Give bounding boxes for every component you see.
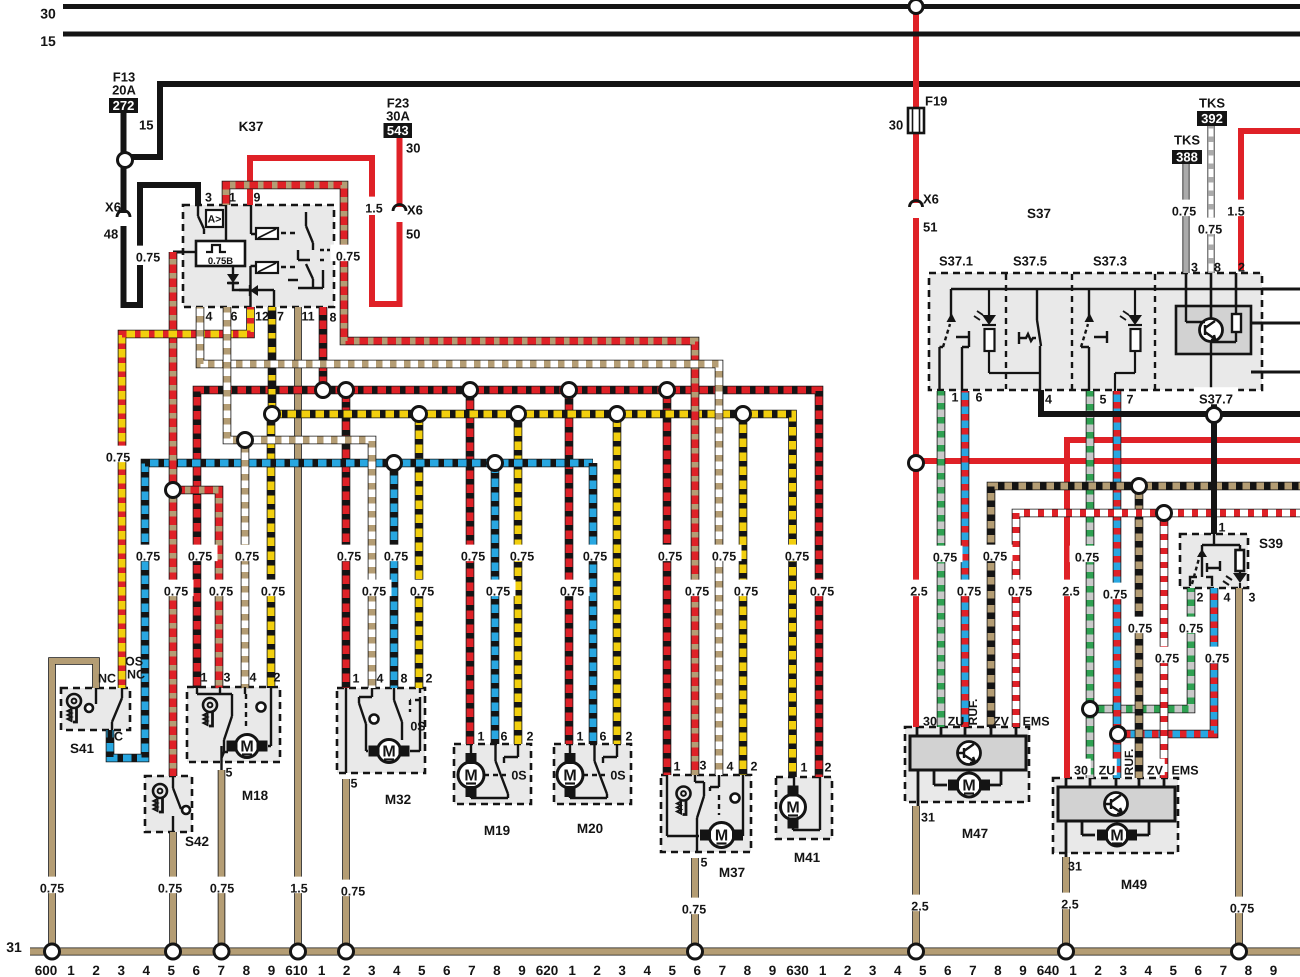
junction white/tan M18 pin4: [238, 433, 253, 448]
svg-text:50: 50: [406, 227, 420, 242]
wire white/tan branch to M18 pin4: [241, 440, 250, 688]
svg-text:0.75: 0.75: [712, 550, 736, 564]
svg-text:0.75: 0.75: [158, 882, 182, 896]
svg-text:4: 4: [377, 672, 384, 686]
svg-text:1: 1: [318, 963, 326, 977]
relay K37 diode 2: [239, 285, 262, 296]
label 1.5 s37pin2: [1222, 200, 1249, 217]
label 0.75 K37pin2feed: [331, 245, 366, 262]
svg-text:8: 8: [1245, 963, 1253, 977]
motor M32 switch lines: [346, 688, 420, 773]
stub S37 right 3: [1251, 371, 1300, 374]
switch S41 box: [61, 688, 130, 730]
connector X6 48: [117, 211, 130, 217]
S37 divider 3: [1154, 274, 1156, 389]
svg-text:9: 9: [769, 963, 777, 977]
motor M18 contact: [257, 703, 266, 712]
svg-text:ZV: ZV: [993, 715, 1010, 729]
svg-text:30: 30: [40, 6, 56, 22]
motor M47 31 lead: [917, 770, 920, 806]
switch S41 blades: [96, 688, 122, 730]
svg-text:RUF.: RUF.: [1122, 749, 1136, 776]
label 0.75 row2 x173: [159, 580, 194, 597]
motor M49 box: [1053, 778, 1178, 853]
label 1.5 k37g: [285, 877, 312, 894]
connector X6 51: [910, 201, 923, 207]
label 0.75 row1 x197: [183, 545, 218, 562]
svg-text:30: 30: [1074, 764, 1088, 778]
svg-text:S37.7: S37.7: [1199, 392, 1233, 407]
svg-text:31: 31: [1068, 860, 1082, 874]
stub S37 right 2: [1251, 322, 1300, 325]
svg-text:0.75: 0.75: [136, 550, 160, 564]
svg-text:15: 15: [139, 118, 153, 133]
junction S37.7 to S39: [1207, 408, 1222, 423]
S37.5 switch: [1019, 289, 1041, 391]
svg-text:0.75: 0.75: [1172, 205, 1196, 219]
fuse F13 track ref 272: [109, 98, 138, 113]
motor M32 motor symbol: [369, 740, 410, 763]
svg-text:1: 1: [819, 963, 827, 977]
wire M37 pin5 to rail 31: [691, 858, 699, 948]
svg-text:7: 7: [468, 963, 476, 977]
svg-text:6: 6: [600, 730, 607, 744]
wire red/tan branch to M18 pin3: [173, 490, 219, 688]
svg-text:0.75: 0.75: [164, 585, 188, 599]
wire white/red EMS net: [1016, 513, 1300, 727]
power rail 30: [63, 4, 1300, 9]
svg-text:3: 3: [1119, 963, 1127, 977]
switch S42 box: [145, 776, 192, 832]
svg-text:2.5: 2.5: [1062, 585, 1079, 599]
svg-text:0.75: 0.75: [209, 585, 233, 599]
junction rail31 K37 pin11: [291, 944, 306, 959]
junction blue/black M19 pin6: [488, 456, 503, 471]
svg-text:630: 630: [786, 963, 809, 977]
svg-text:8: 8: [401, 672, 408, 686]
wire white/tan K37 pin6 to M32 pin4: [227, 307, 372, 688]
junction rail31 M32: [339, 944, 354, 959]
wire red/black to M19 pin1: [466, 390, 475, 744]
label 0.75 row2 x270: [256, 580, 291, 597]
svg-text:2: 2: [343, 963, 351, 977]
wire black/yellow K37 pin7: [268, 307, 277, 414]
svg-text:7: 7: [1220, 963, 1228, 977]
label 0.75 zu49: [1070, 546, 1105, 563]
svg-text:5: 5: [167, 963, 175, 977]
svg-text:12: 12: [255, 310, 269, 324]
wire gray/green branch to S39 pin2: [1090, 588, 1191, 709]
junction red/tan K37 pin2 branch: [166, 483, 181, 498]
svg-text:0.75: 0.75: [336, 250, 360, 264]
svg-text:3: 3: [1191, 261, 1198, 275]
label M49 ZU: [1097, 759, 1117, 776]
svg-text:ZU: ZU: [948, 715, 965, 729]
wire red F19 to X6-51: [913, 133, 919, 203]
svg-text:EMS: EMS: [1022, 715, 1049, 729]
junction rail31 M18: [214, 944, 229, 959]
label 2.5 m49: [1057, 580, 1084, 597]
junction rail31 M37: [688, 944, 703, 959]
switch S42 contact: [182, 806, 190, 814]
wire 15 feed from F13 to terminal 15 rail: [121, 113, 127, 153]
relay K37 interior: [183, 205, 330, 307]
wire tan/black to M49 ZV: [1135, 486, 1144, 778]
svg-text:2: 2: [274, 671, 281, 685]
svg-text:0.75: 0.75: [40, 882, 64, 896]
svg-text:M20: M20: [577, 821, 603, 836]
relay K37 box: [183, 205, 334, 307]
wire black to K37 pin3: [140, 185, 198, 249]
svg-text:1: 1: [1219, 521, 1226, 535]
junction red/black M32 pin1: [339, 383, 354, 398]
svg-text:M32: M32: [385, 792, 411, 807]
label 0.75 m18g: [205, 877, 240, 894]
svg-text:610: 610: [285, 963, 308, 977]
label 0.75 row1 x519: [505, 545, 540, 562]
motor M37 contact: [731, 794, 740, 803]
motor M19 motor symbol: [458, 753, 484, 797]
svg-text:RUF.: RUF.: [966, 699, 980, 726]
label 0.75 zv47: [978, 545, 1013, 562]
wire F13 down to X6: [121, 167, 127, 213]
wire yellow/black to M18 pin2: [267, 414, 276, 688]
svg-text:5: 5: [418, 963, 426, 977]
svg-text:EMS: EMS: [1171, 764, 1198, 778]
label 0.75 row1 x667: [653, 545, 688, 562]
svg-text:7: 7: [277, 310, 284, 324]
svg-text:0.75: 0.75: [136, 251, 160, 265]
svg-text:0S: 0S: [511, 769, 526, 783]
wire yellow/red K37 pin12 to S41: [122, 307, 251, 688]
svg-text:1.5: 1.5: [290, 882, 307, 896]
svg-text:2.5: 2.5: [910, 585, 927, 599]
svg-text:6: 6: [694, 963, 702, 977]
svg-text:4: 4: [643, 963, 651, 977]
svg-text:A>: A>: [208, 213, 222, 225]
svg-text:4: 4: [894, 963, 902, 977]
wire gray/green S37 pin1 to M47 ZU: [937, 391, 946, 727]
svg-text:8: 8: [994, 963, 1002, 977]
switch unit S37 box: [929, 273, 1262, 390]
svg-text:F19: F19: [925, 94, 947, 109]
svg-text:1: 1: [353, 672, 360, 686]
svg-text:0.75: 0.75: [685, 585, 709, 599]
svg-text:600: 600: [35, 963, 58, 977]
svg-text:6: 6: [231, 310, 238, 324]
svg-text:6: 6: [193, 963, 201, 977]
wire red branch right: [916, 458, 1300, 464]
wire yellow/black distribution: [272, 414, 793, 777]
svg-text:M47: M47: [962, 826, 988, 841]
svg-text:OS: OS: [125, 655, 143, 669]
svg-text:4: 4: [1144, 963, 1152, 977]
wire red/black distribution: [197, 390, 819, 777]
wire red/blue S37 pin7 to M49 RUF: [1113, 391, 1122, 778]
S37 internal bus: [951, 288, 1262, 290]
wire ground S41 to rail 31: [52, 661, 96, 948]
S37.1 switch: [940, 289, 970, 391]
wire red X6-51 down to M47 pin30: [913, 218, 919, 727]
label 0.75 row1 x393: [379, 545, 414, 562]
svg-text:2.5: 2.5: [1061, 898, 1078, 912]
wire M49 pin31 to rail 31 (2.5): [1062, 857, 1070, 948]
wire X6/48 down: [124, 226, 141, 305]
svg-text:30: 30: [889, 118, 903, 133]
svg-text:X6: X6: [105, 200, 121, 215]
svg-text:2: 2: [527, 730, 534, 744]
svg-text:8: 8: [243, 963, 251, 977]
label 0.75 row2 x218: [204, 580, 239, 597]
svg-text:X6: X6: [407, 203, 423, 218]
label 2.5 m49g: [1056, 893, 1083, 910]
svg-text:4: 4: [250, 671, 257, 685]
svg-text:M: M: [786, 800, 799, 817]
label 0.75 ems47: [1003, 580, 1038, 597]
svg-text:48: 48: [104, 227, 118, 242]
label 0.75 m37g: [677, 898, 712, 915]
wire black S37.7 to S39 pin1: [1211, 415, 1217, 534]
label 0.75 s41g: [35, 877, 70, 894]
stub S37 right 1: [1262, 288, 1300, 291]
svg-text:M: M: [715, 828, 728, 845]
relay K37 diode 1: [227, 274, 239, 283]
motor M49 motor loop: [1082, 821, 1149, 835]
svg-text:6: 6: [501, 730, 508, 744]
junction F13: [118, 153, 133, 168]
svg-text:30: 30: [923, 715, 937, 729]
label 0.75 zvM49: [1123, 617, 1158, 634]
svg-text:0.75: 0.75: [734, 585, 758, 599]
svg-text:8: 8: [493, 963, 501, 977]
junction red/blue S39 pin4: [1111, 727, 1126, 742]
S37.7 resistor: [1211, 306, 1241, 342]
svg-text:1: 1: [801, 761, 808, 775]
wire K37 pin11 to rail 31 (1.5): [294, 307, 302, 948]
motor M47 motor symbol: [948, 773, 990, 797]
label 0.75 row2 x371: [357, 580, 392, 597]
svg-text:1: 1: [67, 963, 75, 977]
wire red/black to M37 pin1: [663, 390, 672, 775]
svg-text:0.75: 0.75: [461, 550, 485, 564]
label 0.75 s42g: [153, 877, 188, 894]
motor M20 switch lines: [570, 744, 617, 798]
svg-text:30: 30: [406, 141, 420, 156]
junction gray/green S39 pin2: [1083, 702, 1098, 717]
label 0.75 X6-48: [131, 246, 166, 263]
power rail 15: [63, 32, 1300, 37]
label 0.75 tks388: [1167, 200, 1202, 217]
svg-text:1: 1: [229, 191, 236, 205]
fuse F23 track ref 543: [384, 123, 413, 138]
svg-text:0.75: 0.75: [583, 550, 607, 564]
svg-text:S37.1: S37.1: [939, 254, 973, 269]
S37 pin3 lead: [1185, 273, 1188, 306]
svg-text:0S: 0S: [410, 720, 425, 734]
motor M49 pin leads: [1066, 778, 1164, 787]
junction yellow/black M19 pin2: [511, 407, 526, 422]
svg-text:M: M: [962, 778, 975, 795]
svg-text:272: 272: [113, 98, 135, 113]
svg-text:30A: 30A: [386, 109, 410, 124]
wire red cont: [250, 158, 372, 205]
svg-text:3: 3: [205, 191, 212, 205]
svg-text:3: 3: [1249, 591, 1256, 605]
svg-text:6: 6: [443, 963, 451, 977]
svg-text:2: 2: [426, 672, 433, 686]
svg-text:5: 5: [226, 766, 233, 780]
motor M47 inner unit: [910, 736, 1026, 770]
junction red/black M20 pin1: [562, 383, 577, 398]
wire white/red to M49 EMS: [1160, 513, 1169, 778]
svg-text:7: 7: [969, 963, 977, 977]
svg-text:543: 543: [387, 123, 409, 138]
svg-text:ZV: ZV: [1147, 764, 1164, 778]
wire blue/black to M20 pin6: [589, 463, 598, 744]
label 0.75 s39g: [1225, 897, 1260, 914]
motor M20 box: [554, 744, 631, 804]
svg-text:C: C: [114, 730, 123, 744]
svg-text:3: 3: [368, 963, 376, 977]
svg-text:388: 388: [1176, 150, 1198, 165]
svg-text:0.75: 0.75: [1008, 585, 1032, 599]
S37 divider 2: [1071, 274, 1073, 389]
motor M19 box: [454, 744, 531, 804]
motor M18 key symbol: [203, 698, 217, 726]
junction red/black M19 pin1: [463, 383, 478, 398]
track ref TKS 388: [1172, 150, 1202, 164]
svg-text:S42: S42: [185, 834, 209, 849]
motor M37 motor symbol: [700, 823, 743, 848]
S37.3 LED: [1115, 289, 1142, 391]
ground rail 31: [30, 947, 1300, 955]
junction yellow/black K37 pin7: [265, 407, 280, 422]
svg-text:S37.3: S37.3: [1093, 254, 1127, 269]
svg-text:11: 11: [301, 310, 314, 324]
wire red X6/50 to K37 pin9: [372, 215, 400, 304]
svg-text:9: 9: [518, 963, 526, 977]
wire red/tan K37 pin1 to M37 pin3: [226, 185, 695, 775]
switch S41 key symbol: [67, 694, 81, 722]
svg-text:X6: X6: [923, 192, 939, 207]
motor M49 transistor: [1104, 793, 1128, 816]
svg-text:M37: M37: [719, 865, 745, 880]
svg-text:1: 1: [577, 730, 584, 744]
svg-text:0.75: 0.75: [410, 585, 434, 599]
wire red/blue S37 pin6 to M47 RUF: [961, 391, 970, 727]
svg-text:8: 8: [744, 963, 752, 977]
wire red/black to M32 pin1: [342, 390, 351, 688]
junction red/black K37 pin8: [316, 383, 331, 398]
svg-text:3: 3: [869, 963, 877, 977]
label 2.5 m47g: [906, 895, 933, 912]
wire junction to rail: [125, 84, 1300, 157]
svg-text:31: 31: [6, 939, 22, 955]
wire black S37.7 drop from box: [1211, 390, 1217, 415]
motor M49 inner unit: [1058, 787, 1175, 821]
svg-text:M: M: [240, 739, 253, 756]
svg-text:15: 15: [40, 33, 56, 49]
svg-text:0.75: 0.75: [1205, 652, 1229, 666]
S37 pin2 lead: [1235, 273, 1238, 306]
svg-text:2: 2: [751, 760, 758, 774]
svg-text:6: 6: [944, 963, 952, 977]
svg-text:2: 2: [626, 730, 633, 744]
svg-text:M18: M18: [242, 788, 269, 803]
wire red right to M49 pin30: [1067, 440, 1300, 778]
motor M47 transistor: [957, 742, 981, 765]
wire blue/black distribution: [110, 463, 593, 758]
wire M47 pin31 to rail 31 (2.5): [912, 806, 920, 948]
label 0.75 row2 x694: [680, 580, 715, 597]
wire M18 pin5 to rail 31: [218, 770, 226, 948]
svg-text:0.75: 0.75: [235, 550, 259, 564]
svg-text:0.75: 0.75: [106, 451, 130, 465]
S37.3 switch: [1081, 289, 1107, 391]
svg-text:2: 2: [1094, 963, 1102, 977]
junction rail31 M49: [1059, 944, 1074, 959]
switch S39 box: [1180, 534, 1248, 588]
wire gray/white TKS 392 to S37 pin8: [1207, 126, 1214, 273]
svg-text:0.75: 0.75: [658, 550, 682, 564]
S39 LED: [1223, 571, 1247, 588]
svg-text:0.75: 0.75: [933, 551, 957, 565]
wire S39 pin3 to rail 31: [1235, 588, 1243, 948]
label 0.75 row2 x569: [555, 580, 590, 597]
svg-text:0.75: 0.75: [957, 585, 981, 599]
svg-text:5: 5: [668, 963, 676, 977]
svg-text:0.75: 0.75: [560, 585, 584, 599]
label 1.5 X6-50: [360, 197, 387, 214]
S37.7 inner box: [1176, 306, 1251, 354]
wire red/tan K37 pin2 to S42: [169, 252, 178, 776]
label 0.75 ruf49: [1098, 583, 1133, 600]
svg-text:2: 2: [1197, 591, 1204, 605]
svg-text:M19: M19: [484, 823, 510, 838]
motor M49 motor symbol: [1097, 824, 1137, 846]
svg-text:3: 3: [117, 963, 125, 977]
svg-text:2.5: 2.5: [911, 900, 928, 914]
label 2.5 m47: [905, 580, 932, 597]
wire red F23 down: [397, 138, 403, 207]
svg-text:0.75: 0.75: [1103, 588, 1127, 602]
svg-text:0.75: 0.75: [810, 585, 834, 599]
svg-text:M49: M49: [1121, 877, 1147, 892]
motor M49 31 lead: [1065, 821, 1068, 857]
junction blue/black M32 pin8: [387, 456, 402, 471]
label M49 30: [1071, 759, 1091, 776]
wire gray TKS 388 to S37 pin3: [1182, 164, 1189, 273]
svg-text:9: 9: [254, 191, 261, 205]
label 0.75 row1 x794: [780, 545, 815, 562]
svg-text:5: 5: [351, 777, 358, 791]
svg-text:5: 5: [1100, 393, 1107, 407]
motor M41 lines: [793, 777, 820, 830]
motor M47 motor loop: [934, 770, 1001, 785]
svg-text:4: 4: [727, 760, 734, 774]
svg-text:392: 392: [1201, 111, 1223, 126]
S37.7 transistor: [1186, 306, 1223, 390]
svg-text:0.75: 0.75: [486, 585, 510, 599]
junction yellow/black M32 pin2: [412, 407, 427, 422]
svg-text:3: 3: [700, 759, 707, 773]
svg-text:2: 2: [1238, 261, 1245, 275]
svg-text:5: 5: [1169, 963, 1177, 977]
wire yellow/black to M19 pin2: [514, 414, 523, 744]
S39 interior: [1190, 534, 1240, 586]
junction rail 30 / F19: [909, 0, 923, 14]
motor M37 switch lines: [667, 775, 743, 852]
